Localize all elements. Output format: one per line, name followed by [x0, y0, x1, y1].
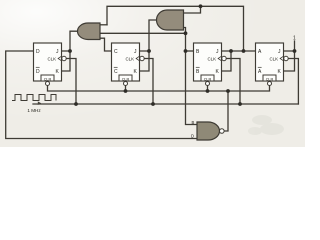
svg-text:CLR: CLR [266, 77, 274, 81]
svg-text:CLK: CLK [207, 56, 216, 61]
junction node CLR NAND riser [226, 89, 230, 93]
junction node gate1 mid input on Q_B [184, 31, 188, 35]
junction node clock at FF D [74, 102, 78, 106]
svg-text:CLR: CLR [122, 77, 130, 81]
junction node Q_B pin [184, 49, 188, 53]
svg-text:D: D [191, 134, 194, 139]
wire CLR rail [48, 86, 270, 91]
flip-flop B [194, 43, 227, 86]
wire gate2 output down to J of FF C [149, 20, 157, 51]
wire J-K tie FF B [222, 51, 232, 71]
svg-text:D: D [36, 69, 40, 75]
wire Q_B vertical from gate2 lower input down to NAND input B [184, 28, 197, 125]
junction node J of FF D [68, 49, 72, 53]
svg-text:1 MHz: 1 MHz [27, 108, 41, 113]
junction node J of FF A [293, 49, 297, 53]
wire FF C clock drop [145, 59, 154, 105]
flip-flop D [34, 43, 67, 86]
wire logic 1 to J-K of FF A [284, 41, 295, 51]
clock arrow [38, 101, 41, 105]
wire Q_A to J of FF B [222, 50, 256, 52]
junction node clock at FF B [238, 102, 242, 106]
nand-gate G3 right-facing [197, 122, 224, 140]
wire NAND output riser to CLR rail [225, 91, 229, 131]
junction node CLR at FF C [124, 89, 128, 93]
wire gate1 mid input long horizontal to Q_B [100, 32, 186, 34]
svg-text:C: C [114, 69, 118, 75]
wire gate2 upper input riser to top rail [184, 6, 201, 13]
flip-flop C [112, 43, 145, 86]
junction node clock at FF C [151, 102, 155, 106]
wire Q_B pin stub [186, 50, 194, 52]
svg-text:CLR: CLR [44, 77, 52, 81]
wire J-K tie FF D [62, 51, 71, 71]
wire gate1 top input stub [100, 24, 107, 26]
wire FF B clock drop [227, 59, 241, 105]
and-gate G2 2-input left-facing [157, 10, 184, 30]
and-gate G1 3-input left-facing [78, 23, 100, 40]
junction node J of FF C [147, 49, 151, 53]
junction node J-K tie FF B [229, 49, 233, 53]
wire clock rail 1 MHz [33, 103, 298, 105]
wire FF B CLR stem [207, 86, 209, 91]
flip-flop A [256, 43, 289, 86]
svg-text:1: 1 [293, 36, 296, 42]
junction node CLR at FF B [206, 89, 210, 93]
wire J-K tie FF C [140, 51, 150, 71]
wire Q_D route left and bottom to NAND input D [6, 51, 197, 139]
svg-text:CLK: CLK [47, 56, 56, 61]
svg-text:C: C [114, 49, 118, 55]
svg-text:D: D [36, 49, 40, 55]
junction node Q_A drop [242, 49, 246, 53]
wire FF D clock drop [67, 59, 77, 105]
wire J-K tie FF A [284, 51, 295, 71]
svg-text:CLR: CLR [204, 77, 212, 81]
svg-text:CLK: CLK [125, 56, 134, 61]
clock waveform 1 MHz [12, 95, 56, 101]
wire FF C CLR stem [125, 86, 127, 91]
wire gate1 output down to J of FF D [70, 31, 78, 51]
wire top rail Q_A [107, 6, 244, 51]
junction node top rail gate2 [199, 4, 203, 8]
svg-text:CLK: CLK [269, 56, 278, 61]
wire FF A clock drop [289, 59, 299, 105]
wire gate1 lower input down to Q_C pin [100, 38, 112, 51]
svg-text:B: B [192, 120, 195, 125]
